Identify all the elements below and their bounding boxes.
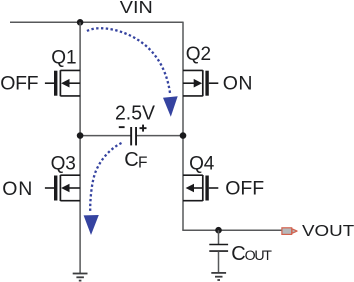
wire COUT bottom lead [218,251,220,272]
transistor Q4 [183,175,218,201]
svg-text:OFF: OFF [225,178,264,200]
node junction mid-right [180,132,187,139]
wire left vertical (VIN to Q1 drain, Q1 source to mid node, down to Q3 and ground) [79,22,81,273]
svg-text:Q4: Q4 [189,153,215,174]
transistor Q3 [45,175,80,201]
capacitor CF plates [130,127,137,145]
wire COUT top lead [218,230,220,244]
svg-text:C: C [231,243,245,265]
svg-text:OUT: OUT [245,248,273,264]
svg-text:C: C [124,149,138,171]
svg-text:ON: ON [2,178,33,200]
wire right vertical (VIN rail to Q2, Q2 to mid node, down through Q4) [182,22,184,231]
svg-text:VIN: VIN [120,0,153,17]
node junction COUT [215,227,222,234]
wire VIN top rail [10,21,183,23]
svg-text:OFF: OFF [0,73,38,95]
label minus (CF) [119,126,125,128]
svg-text:Q2: Q2 [186,44,211,65]
transistor Q1 [45,70,80,96]
svg-text:2.5V: 2.5V [115,101,155,124]
capacitor COUT plates [209,245,228,252]
wire VOUT horizontal [182,229,281,231]
wire mid (cap right segment) [136,135,183,137]
svg-text:Q3: Q3 [51,153,76,174]
current flow arc 2 (CF- through Q3 to ground) [90,143,121,212]
current flow arc 1 (VIN through Q2 to CF+) [87,28,170,93]
node junction mid-left [77,132,84,139]
current flow arrowhead 1 [163,96,178,117]
svg-text:Q1: Q1 [51,48,76,69]
ground (right, below COUT) [211,273,226,280]
svg-text:ON: ON [223,73,253,95]
transistor Q2 [183,70,218,96]
svg-text:F: F [138,155,147,172]
svg-text:VOUT: VOUT [302,223,354,240]
VOUT connector pin [282,228,297,235]
label plus (CF) [140,125,147,132]
current flow arrowhead 2 [84,215,99,235]
ground (left, below Q3) [73,274,88,281]
node junction VIN/Q1 [77,19,84,26]
wire mid (cap left segment) [80,135,131,137]
